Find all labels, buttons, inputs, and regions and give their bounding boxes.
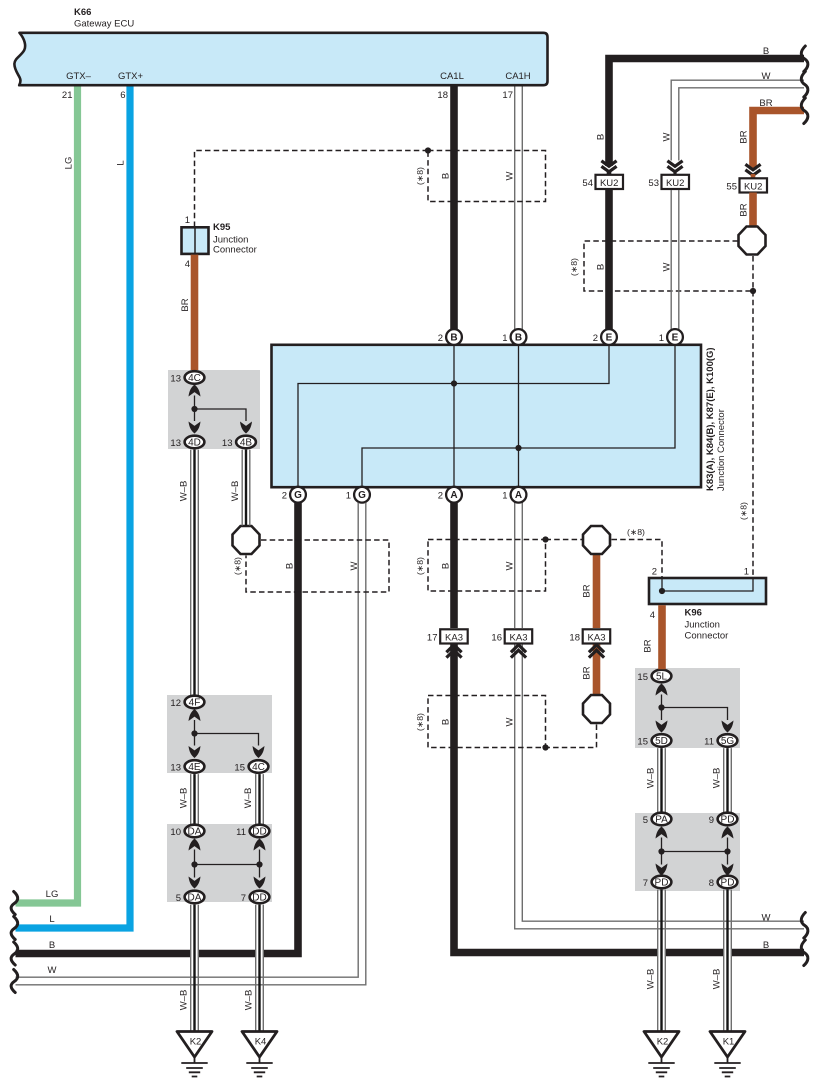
svg-text:12: 12	[170, 698, 181, 709]
svg-text:2: 2	[593, 333, 598, 344]
internal wire K96 pin2 to pin1	[662, 579, 753, 591]
oval terminal DD lower pin 7	[250, 891, 270, 904]
break symbol B left	[11, 942, 18, 965]
svg-text:7: 7	[241, 893, 246, 904]
svg-text:2: 2	[438, 333, 443, 344]
svg-text:21: 21	[62, 90, 73, 101]
svg-text:KU2: KU2	[744, 181, 762, 192]
oval terminal PA pin 5	[652, 813, 672, 826]
splice up arrow below DA	[189, 839, 201, 851]
svg-text:B: B	[285, 563, 296, 569]
wire BR from K96 pin 4 to 5L	[658, 605, 666, 669]
dashed link O1 to K96 pin 2	[612, 540, 663, 579]
splice down arrow to 5D	[656, 721, 668, 733]
wire BR from K95 pin 4 to oval 4C	[191, 255, 199, 371]
white body of ground wires crossing left B line	[195, 940, 260, 992]
ECU K66 Gateway ECU box	[14, 33, 547, 85]
svg-text:B: B	[441, 719, 452, 725]
wire W from junction pin 1A down to bottom right	[515, 502, 804, 929]
wire W-B below 4B to left octagon	[242, 450, 250, 526]
gray splice box C	[167, 824, 272, 902]
internal wire 1B-1A vertical	[518, 346, 520, 486]
svg-text:G: G	[358, 490, 366, 501]
svg-text:E: E	[672, 332, 679, 343]
svg-text:1: 1	[659, 333, 664, 344]
svg-text:(∗8): (∗8)	[415, 713, 425, 731]
svg-text:11: 11	[704, 736, 714, 747]
wire W-B below PD lower left to ground K2 right	[658, 890, 666, 1031]
splice wires inside box C	[195, 850, 260, 878]
break symbol B bottom right	[801, 940, 808, 966]
svg-text:L: L	[116, 160, 127, 165]
svg-text:B: B	[596, 134, 607, 140]
oval terminal PD lower right pin 8	[718, 876, 738, 889]
svg-text:55: 55	[726, 181, 737, 192]
svg-text:(∗8): (∗8)	[739, 502, 749, 520]
gray splice box B	[167, 695, 272, 773]
svg-text:GTX–: GTX–	[66, 71, 92, 82]
svg-text:16: 16	[491, 632, 502, 643]
svg-text:A: A	[515, 490, 522, 501]
connector KA3 pin 16 with arrow	[511, 645, 526, 658]
splice up arrow below PD	[722, 827, 734, 839]
pin 2 G bottom	[290, 487, 306, 503]
svg-text:Connector: Connector	[213, 245, 257, 256]
connector KA3 pin 18 with arrow	[589, 645, 604, 658]
oval terminal DA lower pin 5	[185, 891, 205, 904]
svg-text:Junction Connector: Junction Connector	[716, 409, 727, 491]
wire BR below KU2 55 to shield octagon	[749, 193, 757, 229]
pin 2 B top	[446, 329, 462, 345]
svg-text:W–B: W–B	[712, 768, 723, 789]
splice up arrow below 4F	[189, 709, 201, 721]
oval terminal DA pin 10	[185, 825, 205, 838]
svg-text:1: 1	[744, 567, 749, 578]
wire B below pin 2G down to bottom left	[16, 503, 299, 954]
junction connector K83(A),K84(B),K87(E),K100(G) box	[272, 345, 702, 487]
splice down arrow to 5G	[722, 721, 734, 733]
splice down arrow to 4B	[240, 422, 252, 434]
svg-text:5L: 5L	[656, 671, 668, 682]
junction dot at box 4 top right	[542, 536, 548, 542]
splice down arrow to DD lower	[254, 877, 266, 889]
break symbol W bottom right	[801, 913, 808, 939]
white body of ground wires crossing right B line	[662, 905, 728, 975]
wire LG from GTX- down and left to break	[16, 87, 78, 904]
svg-text:(∗8): (∗8)	[415, 557, 425, 575]
svg-text:(∗8): (∗8)	[233, 557, 243, 575]
svg-text:B: B	[49, 940, 55, 951]
splice dots box C	[191, 861, 197, 867]
svg-text:10: 10	[170, 827, 181, 838]
svg-text:(∗8): (∗8)	[415, 167, 425, 185]
svg-text:13: 13	[170, 762, 181, 773]
svg-text:Connector: Connector	[685, 631, 729, 642]
svg-text:BR: BR	[180, 298, 191, 311]
dashed drain O2 down to box 5	[546, 725, 597, 748]
wire W right column from corner to junction pin 1E	[671, 190, 679, 330]
internal wire 2B-2A vertical	[453, 346, 455, 486]
svg-text:15: 15	[637, 672, 648, 683]
svg-text:13: 13	[170, 438, 181, 449]
svg-text:5D: 5D	[655, 736, 668, 747]
gray splice box A	[168, 370, 260, 449]
wire B from junction pin 2A down to bottom right	[454, 502, 804, 953]
svg-text:W–B: W–B	[243, 788, 254, 809]
svg-text:DD: DD	[252, 892, 266, 903]
svg-text:W: W	[349, 561, 360, 570]
svg-text:5: 5	[643, 815, 648, 826]
svg-text:4C: 4C	[188, 373, 201, 384]
svg-text:BR: BR	[759, 98, 772, 109]
svg-text:LG: LG	[64, 157, 75, 170]
pin 1 A bottom	[511, 487, 527, 503]
svg-text:17: 17	[502, 90, 513, 101]
shield dashed drain from octagon to dot	[752, 256, 754, 291]
svg-text:W: W	[662, 132, 673, 141]
svg-text:KU2: KU2	[600, 178, 618, 189]
shield dashed box 1 around CA1L/CA1H	[428, 151, 546, 202]
svg-text:4: 4	[185, 259, 190, 270]
gray splice box E	[635, 813, 740, 891]
svg-text:PA: PA	[655, 814, 668, 825]
oval terminal 5D pin 15	[652, 734, 672, 747]
splice wires inside box B	[195, 720, 259, 746]
arrow into KU2 54	[601, 161, 616, 172]
pin 2 E top	[601, 329, 617, 345]
connector KU2 pin 53	[673, 172, 676, 176]
splice up arrow below 4C	[189, 385, 201, 397]
svg-text:W: W	[505, 171, 516, 180]
wire B horizontal top right	[609, 59, 804, 167]
svg-text:13: 13	[170, 373, 181, 384]
svg-text:(∗8): (∗8)	[569, 258, 579, 276]
svg-text:4B: 4B	[240, 437, 253, 448]
svg-text:2: 2	[652, 567, 657, 578]
svg-text:Gateway ECU: Gateway ECU	[74, 19, 134, 30]
oval terminal 4B pin 13	[236, 436, 256, 449]
junction connector K95 box	[182, 227, 209, 254]
svg-text:B: B	[441, 173, 452, 179]
svg-text:KA3: KA3	[445, 632, 463, 643]
svg-text:PD: PD	[655, 877, 669, 888]
svg-text:W: W	[48, 965, 57, 976]
splice down arrow to PD lower right	[722, 864, 734, 876]
svg-text:W: W	[505, 717, 516, 726]
arrow into KU2 55	[745, 164, 760, 175]
wire W-B below 5G to PD	[724, 748, 732, 813]
oval terminal PD pin 9	[718, 813, 738, 826]
splice dot box A	[191, 406, 197, 412]
oval terminal PD lower left pin 7	[652, 876, 672, 889]
svg-text:Junction: Junction	[685, 620, 720, 631]
wire B right column from corner to junction pin 2E	[605, 190, 613, 330]
svg-text:18: 18	[437, 90, 448, 101]
svg-text:18: 18	[569, 632, 580, 643]
wire W-B below 4E to DA	[191, 774, 199, 824]
svg-text:7: 7	[643, 878, 648, 889]
svg-text:8: 8	[709, 878, 714, 889]
connector KU2 pin 55	[751, 174, 756, 179]
svg-text:B: B	[441, 563, 452, 569]
svg-text:B: B	[450, 332, 457, 343]
svg-text:4C: 4C	[252, 762, 265, 773]
splice up arrow below 5L	[656, 684, 668, 696]
wire W-B below 5D to PA	[658, 748, 666, 813]
svg-text:DA: DA	[188, 826, 202, 837]
svg-text:15: 15	[637, 736, 648, 747]
shield octagon O1 middle	[583, 526, 610, 554]
junction connector K96 box	[649, 578, 766, 604]
svg-text:W: W	[762, 913, 771, 924]
connector KU2 pin 54	[607, 171, 612, 176]
svg-text:15: 15	[234, 762, 245, 773]
shield octagon left (drain of box 3)	[233, 526, 260, 554]
splice up arrow below PA	[656, 827, 668, 839]
splice down arrow to PD lower left	[656, 864, 668, 876]
wire BR middle column octagon to KA3 18	[593, 554, 601, 628]
connector KA3 pin 17 with arrow	[446, 645, 461, 658]
svg-text:A: A	[450, 490, 457, 501]
svg-text:6: 6	[120, 90, 125, 101]
svg-text:DD: DD	[252, 826, 266, 837]
splice down arrow to 4E	[189, 746, 201, 758]
pin 1 B top	[511, 329, 527, 345]
svg-text:1: 1	[502, 491, 507, 502]
svg-text:4F: 4F	[189, 697, 201, 708]
pin 1 G bottom	[354, 487, 370, 503]
svg-text:B: B	[763, 46, 769, 57]
shield octagon O2 middle lower	[583, 695, 610, 723]
dashed shield drain down right side to K96 pin 1	[752, 291, 754, 578]
shield octagon top right	[739, 227, 766, 255]
svg-text:17: 17	[427, 632, 438, 643]
shield dashed box 4 middle	[428, 540, 546, 592]
svg-text:W–B: W–B	[646, 768, 657, 789]
break symbol W left	[11, 970, 18, 993]
break symbol L left	[11, 917, 18, 940]
break symbol W top right	[801, 72, 808, 98]
wire B CA1L from ECU pin 18 to junction pin 2B	[450, 87, 458, 330]
junction dot at shield box 1 corner	[425, 147, 431, 153]
wire W-B below 4C lower to DD	[256, 774, 264, 824]
splice dots box E	[658, 848, 664, 854]
oval terminal 4D pin 13	[185, 436, 205, 449]
svg-text:B: B	[596, 264, 607, 270]
svg-text:4D: 4D	[188, 437, 201, 448]
gray splice box D	[635, 668, 740, 748]
oval terminal 4E pin 13	[185, 760, 205, 773]
wire W-B below PD lower right to ground K1	[724, 890, 732, 1031]
svg-text:K95: K95	[213, 222, 231, 233]
dashed link box4 to octagon O1	[546, 539, 583, 541]
splice up arrow below DD	[254, 839, 266, 851]
svg-text:E: E	[606, 332, 613, 343]
svg-text:L: L	[49, 914, 54, 925]
svg-text:54: 54	[582, 178, 593, 189]
svg-text:1: 1	[346, 491, 351, 502]
svg-text:11: 11	[236, 827, 246, 838]
svg-text:K83(A), K84(B), K87(E), K100(G: K83(A), K84(B), K87(E), K100(G)	[705, 347, 716, 491]
splice down arrow to 4C lower	[253, 746, 265, 758]
svg-text:B: B	[515, 332, 522, 343]
wire W CA1H from ECU pin 17 to junction pin 1B	[515, 87, 523, 330]
ground K4	[242, 1032, 277, 1058]
junction dot on dashed at (753,291)	[750, 288, 756, 294]
svg-text:K1: K1	[723, 1037, 735, 1048]
svg-text:CA1L: CA1L	[440, 71, 464, 82]
ground K1	[710, 1032, 745, 1058]
svg-text:GTX+: GTX+	[118, 71, 144, 82]
break symbol B top right	[801, 46, 808, 72]
svg-text:53: 53	[648, 178, 659, 189]
svg-text:LG: LG	[46, 889, 59, 900]
svg-text:K96: K96	[685, 608, 702, 619]
splice wires inside box D	[662, 695, 728, 721]
internal junction dot at 2B line	[451, 380, 457, 386]
ground K2 left	[177, 1032, 212, 1058]
svg-text:BR: BR	[582, 666, 593, 679]
svg-text:B: B	[763, 940, 769, 951]
svg-text:W–B: W–B	[244, 990, 255, 1011]
svg-text:K66: K66	[74, 7, 91, 18]
svg-text:PD: PD	[721, 877, 735, 888]
wire W horizontal top right (white wire outline)	[671, 80, 804, 160]
svg-text:13: 13	[222, 438, 233, 449]
internal wire 2G to 2E	[298, 346, 609, 486]
splice dot box B	[191, 730, 197, 736]
dashed shield drain from K95 pin 1 to shield box 1	[195, 151, 429, 228]
shield dashed box 5 middle lower	[428, 696, 546, 748]
svg-text:BR: BR	[739, 130, 750, 143]
oval terminal 5L pin 15	[652, 670, 672, 683]
splice wires inside box E	[662, 838, 728, 865]
svg-text:4E: 4E	[188, 762, 201, 773]
svg-text:KA3: KA3	[510, 632, 528, 643]
shield dashed box 3 left	[246, 540, 389, 592]
svg-text:K4: K4	[255, 1037, 267, 1048]
svg-text:2: 2	[438, 491, 443, 502]
svg-text:W–B: W–B	[179, 990, 190, 1011]
break symbol BR top right	[801, 98, 808, 124]
shield dashed box around B and W wires top right	[584, 241, 753, 291]
wire BR below KA3 18 to lower octagon	[593, 644, 601, 696]
svg-text:9: 9	[709, 815, 714, 826]
internal dot K96	[659, 588, 665, 594]
svg-text:W–B: W–B	[230, 481, 241, 502]
wire L from GTX+ down and left to break	[16, 87, 131, 929]
svg-text:CA1H: CA1H	[505, 71, 530, 82]
svg-text:BR: BR	[739, 203, 750, 216]
splice down arrow to 4D	[189, 422, 201, 434]
svg-text:(∗8): (∗8)	[627, 527, 645, 537]
svg-text:W: W	[505, 561, 516, 570]
oval terminal 4C lower pin 15	[249, 760, 269, 773]
break symbol LG left	[11, 892, 18, 915]
svg-text:BR: BR	[582, 584, 593, 597]
svg-text:K2: K2	[657, 1037, 669, 1048]
oval terminal 5G pin 11	[718, 734, 738, 747]
svg-text:W: W	[762, 71, 771, 82]
svg-text:DA: DA	[188, 892, 202, 903]
ground K2 right	[644, 1032, 679, 1058]
wire W below pin 1G down to bottom left	[16, 503, 366, 985]
svg-text:5G: 5G	[721, 736, 735, 747]
splice wires inside box A	[195, 396, 247, 422]
svg-text:W–B: W–B	[179, 481, 190, 502]
splice dot box D	[658, 704, 664, 710]
wire W-B below DD lower to ground K4	[256, 905, 264, 1031]
wire BR horizontal top right	[753, 111, 804, 170]
svg-text:1: 1	[185, 215, 190, 226]
wire W-B below DA lower to ground K2	[191, 905, 199, 1031]
svg-text:PD: PD	[721, 814, 735, 825]
svg-text:BR: BR	[643, 639, 654, 652]
svg-text:5: 5	[176, 893, 181, 904]
splice down arrow to DA lower	[189, 877, 201, 889]
svg-text:KU2: KU2	[666, 178, 684, 189]
svg-text:G: G	[294, 490, 302, 501]
arrow into KU2 53	[667, 161, 682, 172]
svg-text:W–B: W–B	[179, 788, 190, 809]
svg-text:K2: K2	[190, 1037, 202, 1048]
internal junction dot at 1B line	[515, 445, 521, 451]
oval terminal 4F pin 12	[185, 696, 205, 709]
svg-text:2: 2	[282, 491, 287, 502]
svg-text:4: 4	[650, 610, 655, 621]
svg-text:W–B: W–B	[712, 969, 723, 990]
pin 1 E top	[667, 329, 683, 345]
oval terminal 4C pin 13	[185, 371, 205, 384]
svg-text:W–B: W–B	[646, 969, 657, 990]
wire W-B below 4D to 4F	[191, 450, 199, 696]
svg-text:KA3: KA3	[588, 632, 606, 643]
pin 2 A bottom	[446, 487, 462, 503]
oval terminal DD pin 11	[250, 825, 270, 838]
internal wire 1G to 1E	[362, 346, 675, 486]
svg-text:1: 1	[502, 333, 507, 344]
junction dot at box 5 bottom right	[542, 744, 548, 750]
